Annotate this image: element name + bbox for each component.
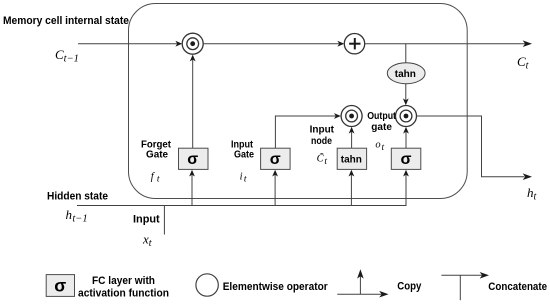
svg-text:ot: ot xyxy=(375,140,384,153)
svg-text:Gate: Gate xyxy=(146,150,168,161)
svg-text:σ: σ xyxy=(270,151,281,168)
svg-text:FC layer with: FC layer with xyxy=(92,275,155,287)
arrowhead into tanh box bottom xyxy=(349,170,355,177)
svg-text:ft: ft xyxy=(151,171,160,184)
arrowhead into output multiply top xyxy=(403,98,409,105)
arrowhead Ct output xyxy=(523,40,532,47)
svg-text:Elementwise operator: Elementwise operator xyxy=(223,281,329,293)
arrowhead into forget multiply bottom xyxy=(190,55,196,62)
wire: cell output line to Ct xyxy=(365,43,525,45)
arrowhead into input sigma bottom xyxy=(272,170,278,177)
arrowhead into adder xyxy=(337,41,344,47)
wire: Ct-1 input xyxy=(78,43,178,45)
svg-text:σ: σ xyxy=(401,151,412,168)
wire: hidden state line with feed up to output sigma xyxy=(77,174,406,206)
output gate sigma box xyxy=(391,148,421,169)
legend concatenate icon xyxy=(441,272,489,300)
svg-text:Input: Input xyxy=(133,214,160,226)
arrowhead ht output xyxy=(523,173,532,180)
elementwise operator: input-node multiply xyxy=(341,106,362,127)
svg-text:tahn: tahn xyxy=(341,155,362,166)
legend copy icon xyxy=(337,269,388,297)
wire: tanh box up to input-node multiply xyxy=(351,131,353,148)
svg-text:Ct: Ct xyxy=(517,54,529,72)
input node tanh box xyxy=(337,148,366,169)
wire: tanh ellipse down to output multiply xyxy=(405,84,407,101)
elementwise operator: forget multiply xyxy=(182,33,203,54)
arrowhead into input-node multiply bottom xyxy=(349,127,355,134)
input gate sigma box xyxy=(261,148,291,169)
arrowhead into input-node multiply left xyxy=(334,113,341,119)
svg-text:gate: gate xyxy=(371,122,392,133)
svg-text:xt: xt xyxy=(142,232,152,250)
svg-text:Hidden state: Hidden state xyxy=(47,191,108,203)
svg-text:Output: Output xyxy=(367,111,396,122)
forget gate sigma box xyxy=(179,148,209,169)
svg-text:Ct−1: Ct−1 xyxy=(55,47,79,65)
legend sigma box xyxy=(46,275,74,297)
svg-text:σ: σ xyxy=(54,276,66,296)
svg-text:it: it xyxy=(240,171,247,184)
svg-text:C̃t: C̃t xyxy=(317,152,328,167)
arrowhead into forget sigma bottom xyxy=(189,170,195,177)
svg-text:Input: Input xyxy=(310,125,335,136)
svg-text:activation function: activation function xyxy=(78,287,169,299)
svg-text:tahn: tahn xyxy=(395,69,416,80)
wire: output multiply to ht output xyxy=(417,116,525,177)
arrowhead into forget multiply xyxy=(175,41,182,47)
svg-text:ht: ht xyxy=(527,185,537,203)
svg-text:Concatenate: Concatenate xyxy=(488,281,547,293)
wire: feed up to forget sigma xyxy=(191,174,193,206)
arrowhead into output sigma bottom xyxy=(403,170,409,177)
elementwise operator: output multiply xyxy=(396,106,417,127)
svg-text:σ: σ xyxy=(187,151,198,168)
svg-text:Memory cell internal state: Memory cell internal state xyxy=(3,15,129,27)
wire: output gate sigma up to output multiply xyxy=(405,131,407,148)
wire: input gate sigma up and right into input-node multiply xyxy=(275,116,336,148)
svg-text:ht−1: ht−1 xyxy=(66,207,88,225)
svg-text:Copy: Copy xyxy=(397,281,422,293)
wire: branch down to tanh ellipse xyxy=(405,44,407,63)
legend elementwise operator circle xyxy=(196,274,218,296)
wire: feed up to input sigma xyxy=(274,174,276,206)
wire: xt input vertical xyxy=(163,206,165,235)
svg-text:node: node xyxy=(311,136,332,147)
arrowhead into output multiply bottom xyxy=(403,127,409,134)
wire: forget gate sigma up to forget multiply xyxy=(192,59,194,148)
svg-text:Gate: Gate xyxy=(234,150,254,161)
tanh ellipse activation xyxy=(387,63,425,84)
elementwise operator: adder xyxy=(344,34,364,54)
wire: cell line to adder xyxy=(203,43,339,45)
memory cell boundary (rounded rectangle) xyxy=(129,4,468,199)
wire: feed up to tanh box xyxy=(350,174,352,206)
